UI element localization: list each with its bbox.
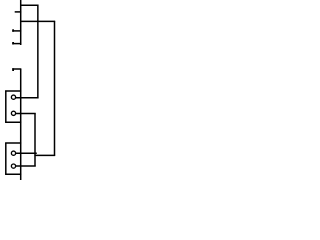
wire: long horizontal net to rail (20, 20, 55, 22)
connector J1 left edge (5, 90, 7, 122)
wire: pin 1 of J2 (net A) to vertical C (16, 152, 37, 154)
pin circle J1.1 (11, 95, 15, 99)
wire: stub2 horizontal (12, 30, 21, 32)
pin circle J2.1 (11, 151, 15, 155)
connector J2 left edge (5, 143, 7, 175)
wire: pin 2 of J2 to bottom of C (16, 165, 36, 167)
wire: pin 2 of J1 to vertical C (16, 113, 36, 115)
wire: stub0 top horizontal (20, 4, 38, 6)
pin circle J2.2 (11, 164, 15, 168)
wire: right rail R (54, 21, 56, 156)
node nub at stub4 end (12, 68, 14, 71)
node nub at stub3 end (12, 42, 14, 45)
connector J2 bottom edge (5, 173, 21, 175)
wire: stub1 horizontal (15, 11, 22, 13)
pin circle J1.2 (11, 111, 15, 115)
wire: stub3 horizontal (12, 43, 21, 45)
wire: left bus B (upper segment) (20, 0, 22, 45)
wire: mid vertical C (34, 113, 36, 166)
connector J1 top edge (5, 90, 21, 92)
wire: left bus B (lower segment, runs off bottom edge) (20, 69, 22, 180)
wire: stub4 horizontal (12, 68, 21, 70)
connector J1 bottom edge (5, 121, 21, 123)
circuit schematic fragment, 56x180 (0, 0, 56, 180)
wire: main trunk A (37, 5, 39, 99)
wire: pin 1 of J1 to trunk A (16, 97, 39, 99)
background (0, 0, 56, 180)
wire: bottom net from C to rail R (34, 154, 55, 156)
node nub at stub2 end (12, 29, 14, 32)
connector J2 top edge (5, 142, 21, 144)
